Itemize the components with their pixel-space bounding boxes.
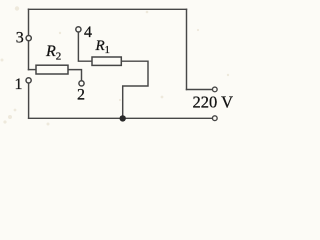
svg-text:4: 4 <box>84 24 92 41</box>
junction dot <box>120 115 126 121</box>
wire terminal 4 stem down to R1 <box>78 32 92 61</box>
wire R1 right, step down to bottom rail <box>121 61 148 118</box>
paper speckles <box>1 6 230 125</box>
terminal 2 <box>79 81 84 86</box>
svg-text:2: 2 <box>77 87 85 104</box>
wire R2 right to terminal 2 <box>68 70 82 81</box>
resistor R2 <box>36 65 68 74</box>
svg-text:220 V: 220 V <box>193 93 234 112</box>
supply terminal lower <box>212 116 217 121</box>
terminal 1 <box>26 78 31 83</box>
wire left vertical lower (terminal 1 to bottom rail) <box>28 83 30 118</box>
terminal 4 <box>76 27 81 32</box>
terminal 3 <box>26 36 31 41</box>
svg-text:3: 3 <box>16 30 24 47</box>
svg-text:1: 1 <box>15 76 23 93</box>
wire left vertical upper (through terminal 3) <box>28 9 30 69</box>
supply terminal upper <box>212 87 217 92</box>
wire right vertical <box>186 9 188 89</box>
wire top rail <box>29 8 187 10</box>
wire bottom rail <box>29 117 212 119</box>
resistor R1 <box>92 57 121 65</box>
wire into R2 left <box>29 69 37 71</box>
wire to upper supply terminal <box>187 89 212 91</box>
